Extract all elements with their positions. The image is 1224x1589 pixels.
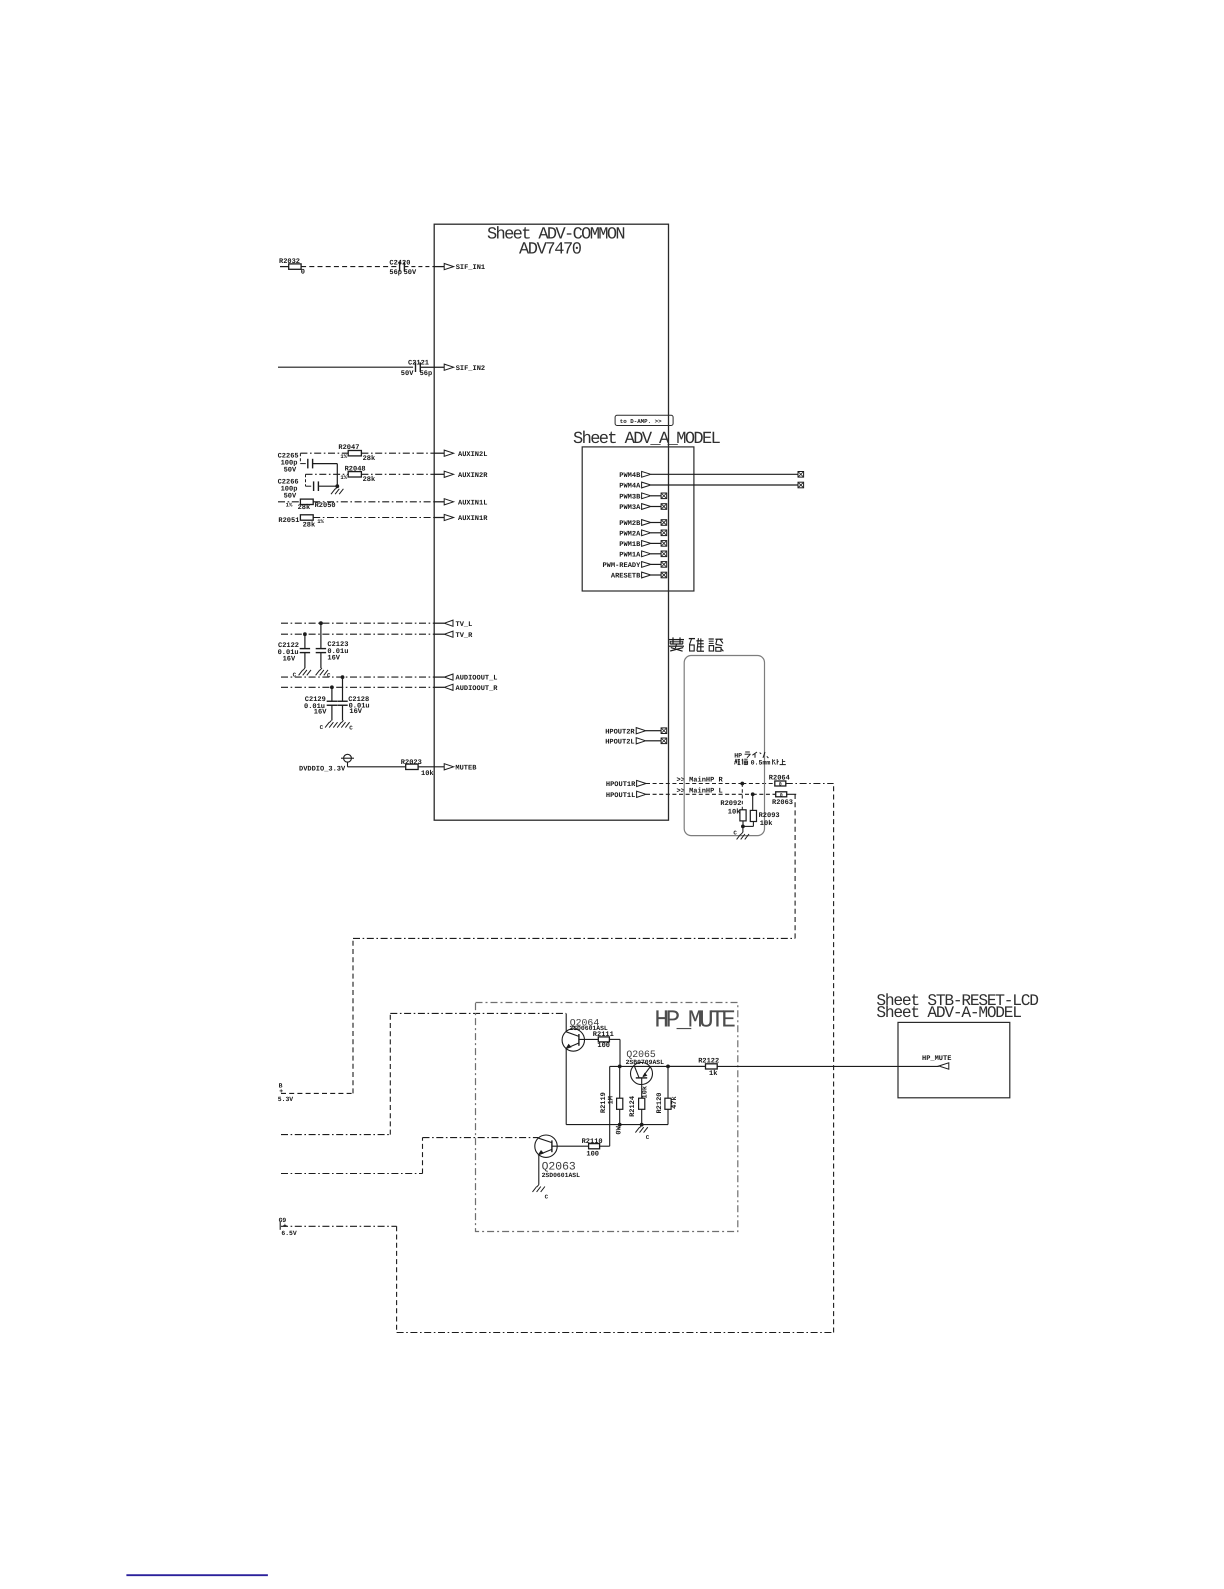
svg-text:0.5mm: 0.5mm [751, 760, 771, 767]
svg-text:0: 0 [780, 793, 783, 799]
svg-text:2SB0709ASL: 2SB0709ASL [626, 1059, 665, 1066]
sheet box ADV-COMMON [434, 224, 668, 820]
svg-text:AUXIN1R: AUXIN1R [458, 515, 488, 523]
resistor R2111 [598, 1037, 609, 1042]
svg-text:PWM4A: PWM4A [619, 483, 641, 491]
svg-text:C: C [545, 1193, 549, 1200]
svg-text:10k: 10k [421, 769, 434, 778]
svg-text:C: C [320, 724, 324, 731]
junction AUDIOOUT_L / C2128 [341, 675, 345, 679]
svg-text:5.3V: 5.3V [278, 1096, 294, 1103]
svg-text:16V: 16V [349, 708, 362, 716]
svg-text:C: C [327, 672, 331, 679]
wire R2064 to right [786, 783, 834, 785]
capacitor C2122 [304, 634, 306, 648]
pin AUXIN2R [444, 471, 453, 477]
svg-text:HP_MUTE: HP_MUTE [654, 1008, 735, 1035]
svg-text:ADV7470: ADV7470 [519, 241, 582, 260]
svg-text:R2051: R2051 [278, 517, 299, 525]
ground Q2063 [537, 1185, 539, 1187]
junction rail/R2124 [640, 1123, 644, 1127]
svg-text:28k: 28k [298, 503, 311, 512]
svg-text:56p: 56p [389, 269, 402, 277]
svg-text:PWM3B: PWM3B [619, 493, 641, 501]
svg-text:1M: 1M [607, 1096, 615, 1104]
svg-text:16V: 16V [283, 655, 296, 663]
svg-text:AUXIN2R: AUXIN2R [458, 472, 488, 480]
capacitor C2265 [299, 453, 301, 463]
svg-text:56p: 56p [420, 370, 433, 378]
svg-text:R2122: R2122 [698, 1057, 719, 1065]
wire TV_R dashed [281, 633, 434, 635]
svg-text:PWM1A: PWM1A [619, 551, 641, 559]
wire R2048 to pin AUXIN2R [361, 473, 434, 475]
svg-text:R2048: R2048 [345, 465, 366, 473]
svg-text:50V: 50V [401, 370, 414, 378]
svg-text:2SD0601ASL: 2SD0601ASL [542, 1172, 581, 1179]
transistor Q2065 [631, 1063, 653, 1085]
svg-text:R2120: R2120 [656, 1092, 664, 1113]
block box HP_MUTE [476, 1003, 738, 1232]
terminal PWM2A [661, 530, 667, 536]
wire TV_L dashed [281, 622, 434, 624]
resistor R2064 [775, 781, 786, 786]
wire C2266 to ground node [318, 485, 337, 487]
svg-text:1%: 1% [340, 453, 347, 460]
svg-text:R2110: R2110 [582, 1138, 603, 1146]
wire HPOUT1L (MainHP L) [646, 793, 753, 795]
pin AUDIOOUT_R [444, 684, 453, 690]
wire R2063 to right [787, 793, 797, 795]
ground AUX caps [335, 487, 337, 489]
resistor R2050 [300, 499, 313, 504]
svg-text:ARESETB: ARESETB [611, 573, 641, 581]
terminal PWM1B [661, 541, 667, 547]
junction TV_L / C2123 [319, 621, 323, 625]
ground C2122 [303, 668, 305, 670]
terminal PWM1A [661, 551, 667, 557]
svg-text:AUDIOOUT_R: AUDIOOUT_R [456, 685, 499, 693]
svg-text:100: 100 [586, 1151, 599, 1159]
svg-text:PWM2B: PWM2B [619, 520, 641, 528]
wire to R2023 [348, 766, 406, 768]
wire base node Q2065 [610, 1065, 706, 1067]
power DVDDIO_3.3V [344, 754, 352, 762]
pin TV_R [444, 631, 453, 637]
svg-text:PWM1B: PWM1B [619, 541, 641, 549]
svg-text:PWM4B: PWM4B [619, 472, 641, 480]
sheet box ADV_A_MODEL [582, 447, 694, 591]
svg-text:C: C [646, 1134, 650, 1141]
svg-text:1%: 1% [340, 474, 347, 481]
svg-text:16V: 16V [327, 654, 340, 662]
wire SIF_IN1 left stub [280, 266, 289, 268]
resistor R2063 [776, 792, 787, 797]
wire net G9 to R2064 [833, 784, 835, 1333]
junction AUX ground node [335, 484, 339, 488]
wire C2121 to pin SIF_IN2 [420, 366, 444, 368]
terminal ARESETB [661, 572, 667, 578]
svg-text:47k: 47k [670, 1096, 679, 1109]
resistor R2120 [667, 1066, 669, 1098]
svg-text:28k: 28k [363, 475, 376, 484]
resistor R2124 [639, 1098, 645, 1109]
svg-text:R2032: R2032 [279, 258, 300, 266]
transistor Q2064 [562, 1029, 584, 1051]
terminal PWM4B [798, 472, 804, 478]
svg-text:R2050: R2050 [315, 502, 336, 510]
svg-text:R2092: R2092 [720, 800, 741, 808]
resistor R2023 [406, 764, 418, 769]
ground rail C [640, 1125, 642, 1127]
junction TV_R / C2122 [303, 632, 307, 636]
pin MUTEB [444, 764, 453, 770]
svg-text:28k: 28k [303, 520, 316, 529]
wire AUXIN1L dashed left [278, 501, 300, 503]
svg-text:R2093: R2093 [759, 812, 780, 820]
terminal PWM4A [798, 482, 804, 488]
svg-text:DVDDIO_3.3V: DVDDIO_3.3V [299, 765, 346, 773]
wire HPOUT1R (MainHP R) [646, 783, 742, 785]
pin TV_L [444, 620, 453, 626]
terminal PWM3A [661, 504, 667, 510]
terminal PWM2B [661, 520, 667, 526]
wire mute drive to Q2064 [281, 1134, 390, 1136]
resistor R2047 [348, 451, 361, 456]
svg-text:AUXIN2L: AUXIN2L [458, 451, 487, 459]
resistor R2119 [619, 1066, 621, 1098]
svg-text:PWM-READY: PWM-READY [602, 562, 641, 570]
wire mute drive to Q2063 [281, 1173, 423, 1175]
svg-text:0: 0 [301, 268, 305, 276]
svg-text:R2047: R2047 [338, 444, 359, 452]
junction HPOUT1R/R2092 [740, 782, 744, 786]
svg-text:C: C [349, 725, 353, 732]
svg-text:Sheet ADV-A-MODEL: Sheet ADV-A-MODEL [876, 1004, 1021, 1022]
svg-text:MUTEB: MUTEB [455, 764, 477, 772]
junction R2092/R2093 [741, 825, 745, 829]
svg-text:TV_L: TV_L [456, 621, 473, 629]
pin AUXIN2L [444, 450, 453, 456]
resistor R2048 [348, 472, 361, 477]
svg-text:C: C [733, 830, 737, 837]
note text YOU-KAKU-NIN (check required) [669, 639, 684, 641]
wire R2110 to node [600, 1145, 610, 1147]
capacitor C2121 [415, 362, 417, 372]
svg-text:>> MainHP R: >> MainHP R [677, 776, 724, 785]
note box (rounded) [684, 656, 764, 836]
pin AUXIN1L [444, 499, 453, 505]
svg-text:HPOUT2L: HPOUT2L [605, 739, 634, 747]
wire AUDIOOUT_L dashed [281, 676, 434, 678]
wire AUXIN2R dashed [306, 473, 349, 475]
capacitor C2128 [342, 677, 344, 701]
svg-text:HPOUT2R: HPOUT2R [605, 728, 635, 736]
svg-text:50V: 50V [284, 492, 297, 500]
wire C2265 to ground node [313, 463, 338, 465]
junction rail/R2119 [618, 1123, 622, 1127]
svg-text:1%: 1% [317, 518, 324, 525]
wire R2047 to pin AUXIN2L [361, 452, 434, 454]
svg-text:50V: 50V [404, 269, 417, 277]
svg-text:PWM3A: PWM3A [619, 504, 641, 512]
svg-text:0: 0 [779, 782, 782, 788]
pin SIF_IN2 [444, 364, 453, 370]
junction HPOUT1L/R2093 [751, 792, 755, 796]
svg-text:R2023: R2023 [401, 759, 422, 767]
transistor Q2063 [535, 1135, 557, 1157]
svg-text:R2124: R2124 [629, 1096, 637, 1117]
terminal HPOUT2L [661, 738, 667, 744]
capacitor C2420 [399, 262, 401, 272]
wire PWM4A long [651, 484, 798, 486]
wire R2122 to HP_MUTE pin [717, 1065, 939, 1067]
ground C2128 [342, 720, 344, 722]
page mark (blue line) [126, 1574, 268, 1576]
ground C2129 [329, 720, 331, 722]
svg-text:to D-AMP. >>: to D-AMP. >> [620, 418, 662, 425]
svg-text:28k: 28k [363, 454, 376, 463]
svg-text:50V: 50V [284, 466, 297, 474]
terminal PWM-READY [661, 562, 667, 568]
svg-text:HP: HP [734, 753, 742, 760]
label box to D-AMP [615, 415, 673, 425]
wire SIF_IN2 from left [278, 366, 413, 368]
svg-text:Sheet ADV_A_MODEL: Sheet ADV_A_MODEL [573, 430, 721, 449]
capacitor C2123 [320, 623, 322, 648]
svg-text:AUDIOOUT_L: AUDIOOUT_L [456, 675, 498, 683]
svg-text:10k: 10k [728, 807, 741, 816]
wire R2051 to pin AUXIN1R [313, 517, 434, 519]
svg-text:10k: 10k [760, 819, 773, 828]
sheet box STB [898, 1022, 1010, 1097]
ground R2092/R2093 [742, 826, 744, 832]
ground C2123 [320, 668, 322, 670]
svg-text:1%: 1% [286, 502, 293, 509]
wire PWM4B long [651, 473, 798, 475]
svg-text:HPOUT1R: HPOUT1R [606, 781, 636, 789]
svg-text:TV_R: TV_R [456, 632, 474, 640]
wire net B to R2063 [794, 794, 796, 938]
wire net G9 6.5V [281, 1225, 397, 1227]
pin AUXIN1R [444, 514, 453, 520]
svg-text:100: 100 [597, 1042, 610, 1050]
svg-text:R2063: R2063 [772, 799, 793, 807]
svg-text:6.5V: 6.5V [281, 1230, 297, 1237]
svg-text:R2111: R2111 [593, 1031, 614, 1039]
svg-text:SIF_IN2: SIF_IN2 [456, 365, 485, 373]
wire net B 5.3V [281, 1092, 353, 1094]
svg-text:1k: 1k [709, 1069, 717, 1078]
junction node/R2120 [666, 1065, 670, 1069]
capacitor C2266 [305, 474, 307, 486]
junction node/R2119 [618, 1065, 622, 1069]
wire emitter/ground rail [566, 1124, 668, 1126]
junction AUDIOOUT_R / C2129 [330, 685, 334, 689]
resistor R2093 [752, 794, 754, 810]
svg-text:AUXIN1L: AUXIN1L [458, 500, 487, 508]
wire AUDIOOUT_R dashed [281, 686, 434, 688]
wire dashed R2032 to C2420 [301, 266, 397, 268]
svg-text:HP_MUTE: HP_MUTE [922, 1055, 951, 1063]
svg-text:PWM2A: PWM2A [619, 530, 641, 538]
resistor R2092 [741, 784, 743, 810]
terminal PWM3B [661, 493, 667, 499]
resistor R2032 [289, 264, 301, 269]
svg-text:C2121: C2121 [408, 359, 429, 367]
wire R2050 to pin AUXIN1L [313, 501, 434, 503]
svg-text:10k: 10k [640, 1086, 649, 1099]
wire R2023 to pin MUTEB [418, 766, 444, 768]
wire C2420 to pin SIF_IN1 [404, 266, 434, 268]
terminal HPOUT2R [661, 728, 667, 734]
pin SIF_IN1 [444, 264, 453, 270]
capacitor C2129 [331, 687, 333, 701]
resistor R2122 [668, 1065, 706, 1067]
resistor R2110 [589, 1144, 600, 1149]
svg-text:0W: 0W [615, 1125, 623, 1134]
svg-text:>> MainHP L: >> MainHP L [677, 786, 723, 795]
svg-text:SIF_IN1: SIF_IN1 [456, 264, 485, 272]
svg-text:16V: 16V [314, 709, 327, 717]
wire AUXIN2L dashed [300, 452, 348, 454]
pin AUDIOOUT_L [444, 674, 453, 680]
wire R2111 to node [609, 1038, 620, 1040]
svg-text:HPOUT1L: HPOUT1L [606, 792, 635, 800]
